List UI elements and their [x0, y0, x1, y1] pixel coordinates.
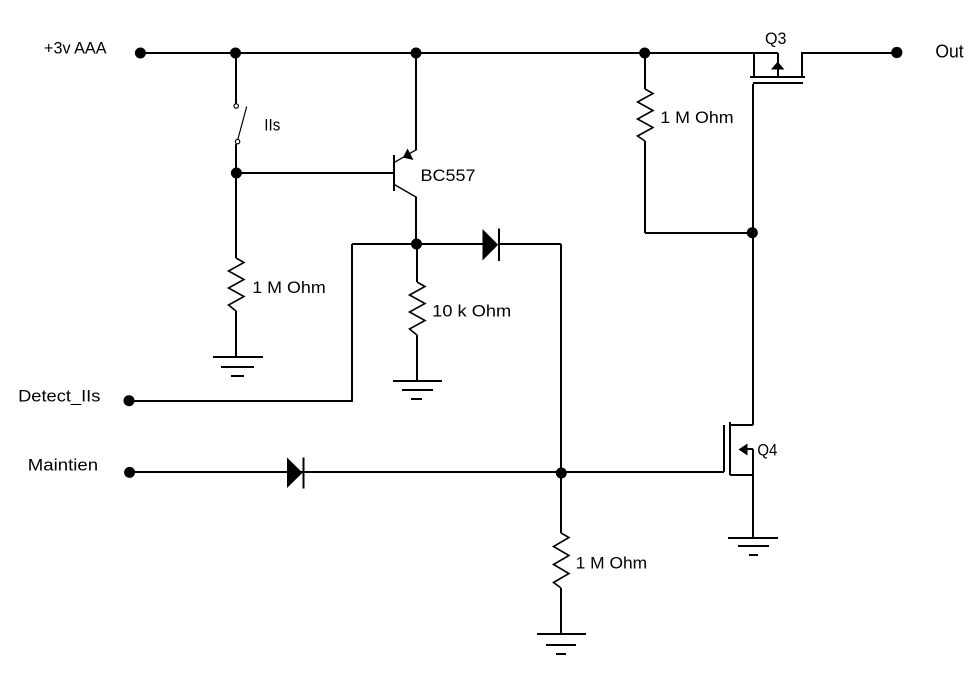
- switch IIs blade: [238, 107, 247, 140]
- diode D1 cathode bar: [498, 229, 500, 262]
- transistor Q1 BC557 collector diagonal: [395, 185, 418, 198]
- transistor Q3 drain vertical: [801, 53, 803, 77]
- wire switch top lead: [235, 53, 237, 104]
- node dot Out terminal: [891, 47, 902, 58]
- wire Q4 bulk to source vertical: [752, 449, 754, 475]
- svg-text:1 M Ohm: 1 M Ohm: [252, 278, 325, 297]
- resistor R4 1 M Ohm zigzag: [554, 533, 570, 588]
- wire top rail right segment: [801, 52, 897, 54]
- wire Q4 drain horizontal: [730, 424, 753, 426]
- node dot rail left terminal: [135, 48, 146, 59]
- transistor Q3 gate bar: [753, 82, 803, 84]
- transistor Q3 source vertical: [753, 53, 755, 77]
- transistor Q3 bulk arrow stem: [777, 53, 779, 77]
- transistor Q4 bulk line: [746, 448, 753, 450]
- node dot rail at R3: [639, 48, 650, 59]
- transistor Q3 channel bar: [750, 76, 805, 78]
- transistor Q1 base bar: [393, 155, 395, 191]
- switch IIs bottom contact circle: [235, 139, 239, 143]
- wire node to resistor R4: [560, 472, 562, 533]
- diode D2 cathode bar: [303, 458, 305, 489]
- node dot Detect_IIs terminal: [124, 395, 135, 406]
- svg-text:10 k Ohm: 10 k Ohm: [432, 302, 511, 321]
- svg-text:Out: Out: [935, 42, 963, 62]
- svg-text:+3v AAA: +3v AAA: [44, 39, 107, 58]
- svg-text:Q3: Q3: [765, 29, 787, 48]
- wire R3 bottom to gate node: [645, 232, 752, 234]
- svg-text:Detect_IIs: Detect_IIs: [18, 387, 100, 406]
- wire Maintien horizontal to Q4 gate: [129, 471, 724, 473]
- wire base of Q BC557: [236, 172, 394, 174]
- svg-text:BC557: BC557: [421, 166, 476, 185]
- wire R2 to ground: [416, 335, 418, 381]
- transistor Q4 channel bar: [729, 422, 731, 475]
- svg-text:Q4: Q4: [757, 441, 777, 460]
- ground G3 under Q4: [728, 537, 778, 539]
- transistor Q4 bulk arrow: [739, 444, 748, 456]
- wire collector node to left corner: [352, 243, 416, 245]
- wire Q4 source horizontal: [730, 474, 753, 476]
- transistor Q4 gate bar: [723, 425, 725, 472]
- switch IIs top contact circle: [234, 104, 238, 108]
- wire collector vertical: [415, 197, 417, 244]
- wire corner down to Detect_IIs line: [351, 244, 353, 401]
- node dot rail at emitter: [411, 48, 422, 59]
- wire collector node to diode D1: [416, 243, 484, 245]
- wire Q3 gate lead down to node and Q4 drain: [752, 84, 754, 425]
- transistor Q3 bulk arrow: [771, 62, 784, 70]
- wire vertical diode output down to Maintien node: [560, 244, 562, 472]
- wire node to resistor R1: [235, 173, 237, 258]
- resistor R1 1 M Ohm zigzag: [229, 258, 245, 311]
- wire diode D1 to vertical: [499, 243, 561, 245]
- wire emitter vertical: [415, 53, 417, 150]
- wire top rail left segment: [140, 52, 778, 54]
- diode D1 triangle: [483, 229, 499, 261]
- ground G1 under R1: [213, 356, 263, 358]
- resistor R3 1 M Ohm zigzag: [638, 89, 654, 141]
- wire node to resistor R2: [416, 244, 418, 282]
- ground G4 under R4: [537, 633, 586, 635]
- svg-text:IIs: IIs: [264, 116, 280, 135]
- diode D2 triangle: [287, 458, 303, 489]
- resistor R2 10 k Ohm zigzag: [410, 282, 426, 335]
- transistor Q1 BC557 emitter diagonal: [395, 149, 418, 162]
- node dot Maintien junction at R4: [556, 468, 567, 479]
- wire rail to resistor R3: [644, 53, 646, 89]
- wire R3 down: [644, 141, 646, 233]
- wire R1 to ground: [235, 311, 237, 357]
- wire R4 to ground: [560, 588, 562, 634]
- wire Detect_IIs horizontal: [129, 400, 353, 402]
- wire switch bottom lead: [235, 144, 237, 173]
- svg-text:1 M Ohm: 1 M Ohm: [576, 554, 647, 573]
- node dot rail at switch: [230, 48, 241, 59]
- node dot switch bottom junction: [231, 168, 242, 179]
- node dot Maintien terminal: [124, 467, 135, 478]
- node dot collector junction: [411, 239, 422, 250]
- svg-text:1 M Ohm: 1 M Ohm: [660, 108, 733, 127]
- wire Q4 source to ground: [752, 475, 754, 538]
- transistor Q1 BC557 emitter arrow: [403, 149, 414, 161]
- svg-text:Maintien: Maintien: [28, 456, 98, 475]
- node dot Q3 gate junction: [747, 227, 758, 238]
- ground G2 under R2: [393, 380, 442, 382]
